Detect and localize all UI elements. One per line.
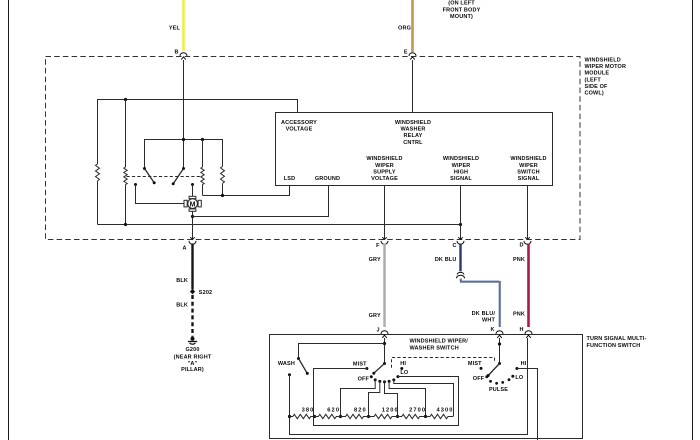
svg-text:COWL): COWL)	[585, 91, 604, 97]
wire d5 tap	[394, 380, 454, 417]
junction on K wire	[498, 342, 501, 345]
connector A	[183, 237, 196, 251]
coil L1	[124, 100, 127, 225]
svg-text:WASH: WASH	[278, 361, 295, 367]
svg-text:PILLAR): PILLAR)	[181, 367, 204, 373]
svg-text:SIDE OF: SIDE OF	[585, 84, 609, 90]
svg-text:(NEAR RIGHT: (NEAR RIGHT	[174, 354, 212, 360]
relay switch SW1	[143, 167, 156, 184]
connector C	[453, 237, 464, 249]
svg-text:WHT: WHT	[482, 318, 495, 324]
inline connector (DK BLU break)	[457, 272, 465, 278]
svg-text:(LEFT: (LEFT	[585, 77, 602, 83]
wire BLK A to S202	[176, 244, 192, 290]
svg-text:D: D	[520, 243, 524, 249]
svg-text:SIGNAL: SIGNAL	[518, 176, 540, 182]
wire LSD net	[203, 186, 290, 196]
wire B to relay switch SW2	[183, 60, 185, 169]
resistor 1200	[369, 408, 399, 419]
wiper switch rotor (left bank)	[372, 362, 386, 375]
svg-text:LSD: LSD	[284, 176, 295, 182]
module label (LEFT SIDE OF COWL)	[585, 58, 627, 97]
svg-text:E: E	[404, 50, 408, 56]
connector J	[376, 328, 388, 338]
svg-text:WASHER SWITCH: WASHER SWITCH	[410, 345, 459, 351]
wire DK BLU from C	[435, 244, 461, 272]
svg-text:GROUND: GROUND	[315, 176, 340, 182]
wire d2 tap	[369, 381, 380, 416]
contact HI (right bank)	[515, 361, 526, 370]
resistor 2700	[398, 408, 427, 419]
svg-text:WINDSHIELD: WINDSHIELD	[395, 120, 431, 126]
connector B	[175, 50, 187, 60]
contact OFF (right bank)	[473, 375, 489, 382]
svg-text:SWITCH: SWITCH	[517, 169, 540, 175]
svg-text:MOUNT): MOUNT)	[450, 14, 473, 20]
pin label ACCESSORY VOLTAGE	[281, 120, 317, 133]
svg-text:HI: HI	[400, 361, 406, 367]
svg-text:DK BLU/: DK BLU/	[472, 311, 496, 317]
svg-text:DK BLU: DK BLU	[435, 257, 457, 263]
wire relay bus (second horizontal)	[145, 140, 223, 169]
wire J into wiper switch	[384, 338, 386, 364]
wire d1 tap	[341, 380, 376, 417]
svg-text:PNK: PNK	[513, 257, 525, 263]
svg-text:A: A	[183, 245, 187, 251]
wire E to washer relay ctrl pin	[412, 60, 414, 113]
svg-text:820: 820	[354, 408, 367, 414]
pin label WINDSHIELD WASHER RELAY CNTRL	[395, 120, 431, 146]
svg-text:SIGNAL: SIGNAL	[450, 176, 472, 182]
svg-text:BLK: BLK	[176, 303, 188, 309]
wire K into pulse switch	[499, 338, 501, 364]
svg-text:CNTRL: CNTRL	[403, 140, 423, 146]
svg-text:RELAY: RELAY	[404, 133, 423, 139]
svg-text:G200: G200	[185, 347, 199, 353]
page frame left border	[8, 0, 10, 440]
contact LO (left bank)	[396, 370, 409, 378]
wire F pin	[384, 186, 386, 240]
wire ORG (to connector E)	[398, 0, 412, 52]
contact HI (left bank)	[400, 361, 406, 370]
svg-text:380: 380	[302, 408, 315, 414]
svg-text:VOLTAGE: VOLTAGE	[286, 127, 313, 133]
mechanical linkage dashed	[127, 176, 202, 178]
connector F	[376, 237, 388, 249]
connector H	[520, 327, 532, 338]
wire MIST-LO bypass	[314, 369, 459, 426]
wire C pin	[460, 186, 462, 240]
svg-text:(ON LEFT: (ON LEFT	[448, 1, 475, 7]
wire GRY F to J	[369, 244, 385, 328]
wire D pin	[527, 186, 529, 240]
wire wash contact to resistor chain and H	[290, 338, 528, 435]
svg-text:MIST: MIST	[353, 362, 367, 368]
svg-text:LO: LO	[400, 370, 409, 376]
svg-text:1200: 1200	[382, 408, 399, 414]
wire d4 tap	[389, 381, 425, 416]
svg-text:HI: HI	[521, 361, 527, 367]
relay switch SW2	[172, 167, 185, 185]
resistor 620	[315, 408, 341, 419]
module electronics box U1	[276, 113, 553, 186]
motor M1	[184, 196, 201, 211]
resistor 380	[290, 408, 315, 419]
svg-text:HIGH: HIGH	[454, 169, 468, 175]
label TURN SIGNAL MULTI-FUNCTION SWITCH	[587, 336, 647, 349]
svg-text:SUPPLY: SUPPLY	[373, 169, 396, 175]
svg-text:PNK: PNK	[513, 312, 525, 318]
svg-text:GRY: GRY	[369, 313, 381, 319]
svg-text:WIPER MOTOR: WIPER MOTOR	[585, 64, 627, 70]
wire DK BLU/WHT to K	[460, 279, 500, 327]
pulse switch rotor (right bank)	[487, 362, 501, 377]
wire wash feed	[299, 344, 385, 359]
page frame right border	[692, 0, 694, 440]
svg-text:4300: 4300	[436, 408, 453, 414]
delay contacts d1-d5	[374, 378, 396, 383]
pin label WINDSHIELD WIPER SWITCH SIGNAL	[510, 156, 546, 182]
wire d3 tap	[385, 382, 398, 417]
wire HI (right bank) off-page	[517, 369, 538, 440]
turn signal multi-function switch box	[270, 335, 583, 439]
svg-text:VOLTAGE: VOLTAGE	[371, 176, 398, 182]
svg-text:ORG: ORG	[398, 26, 411, 32]
svg-text:TURN SIGNAL MULTI-: TURN SIGNAL MULTI-	[587, 336, 647, 342]
svg-text:GRY: GRY	[369, 257, 381, 263]
svg-text:620: 620	[327, 408, 340, 414]
junction coil L1 / feed	[124, 98, 127, 101]
splice S202	[190, 289, 212, 296]
svg-text:S202: S202	[199, 290, 212, 296]
wire park net (long horizontal)	[98, 224, 461, 226]
label WINDSHIELD WIPER/WASHER SWITCH	[410, 339, 469, 352]
connector K	[491, 327, 503, 338]
svg-text:WIPER: WIPER	[375, 163, 394, 169]
svg-text:H: H	[520, 327, 524, 333]
note (ON LEFT FRONT BODY MOUNT)	[443, 1, 481, 21]
contact SW1	[134, 183, 184, 204]
svg-text:WIPER: WIPER	[452, 163, 471, 169]
svg-text:FRONT BODY: FRONT BODY	[443, 8, 481, 14]
contact MIST (left bank)	[353, 362, 368, 370]
svg-text:WINDSHIELD: WINDSHIELD	[443, 156, 479, 162]
linkage dashed (wiper to pulse switch)	[392, 358, 495, 368]
resistor 4300	[426, 408, 454, 419]
svg-text:WINDSHIELD: WINDSHIELD	[585, 58, 621, 64]
svg-text:J: J	[376, 328, 379, 334]
wire BLK S202 to G200 (dashed)	[176, 295, 192, 337]
wire PNK D to H	[513, 244, 529, 328]
svg-text:BLK: BLK	[176, 278, 188, 284]
resistor 820	[341, 408, 369, 419]
contact OFF (left bank)	[358, 375, 373, 382]
junction R2 / LSD net	[221, 194, 224, 197]
connector E	[404, 50, 416, 60]
windshield wiper motor module dashed box	[46, 57, 581, 240]
svg-text:K: K	[491, 327, 495, 333]
contact MIST (right bank)	[468, 361, 483, 370]
svg-text:YEL: YEL	[169, 26, 181, 32]
contact LO (right bank)	[511, 375, 524, 381]
junction coil L2 / relay bus	[201, 138, 204, 141]
svg-text:WINDSHIELD: WINDSHIELD	[366, 156, 402, 162]
svg-text:WIPER: WIPER	[519, 163, 538, 169]
connector D	[520, 237, 531, 248]
svg-text:MIST: MIST	[468, 361, 482, 367]
pin label WINDSHIELD WIPER SUPPLY VOLTAGE	[366, 156, 402, 182]
svg-text:WINDSHIELD: WINDSHIELD	[510, 156, 546, 162]
svg-text:LO: LO	[515, 375, 524, 381]
wire YEL (to connector B)	[169, 0, 184, 51]
svg-text:OFF: OFF	[358, 376, 370, 382]
svg-text:ACCESSORY: ACCESSORY	[281, 120, 317, 126]
junction B wire / relay bus	[182, 138, 185, 141]
resistor R1	[96, 164, 100, 225]
svg-text:2700: 2700	[409, 408, 426, 414]
pin label WINDSHIELD WIPER HIGH SIGNAL	[443, 156, 479, 182]
svg-text:C: C	[453, 243, 457, 249]
switch WASH	[278, 357, 309, 376]
wire accessory-voltage feed (top horizontal)	[98, 100, 298, 165]
wire motor bottom to connector A	[192, 211, 194, 239]
svg-text:B: B	[175, 50, 179, 56]
resistor chain junction dots	[288, 415, 427, 418]
junction park net / C pin	[459, 223, 462, 226]
coil L2	[201, 140, 204, 196]
svg-text:WINDSHIELD WIPER/: WINDSHIELD WIPER/	[410, 339, 469, 345]
svg-text:M: M	[190, 201, 196, 208]
resistor R2	[221, 164, 225, 196]
ground G200	[174, 337, 212, 373]
pulse position contacts	[489, 378, 510, 384]
svg-text:MODULE: MODULE	[585, 71, 610, 77]
junction coil L1 / park net	[124, 223, 127, 226]
svg-text:PULSE: PULSE	[489, 387, 508, 393]
wire ground net to GROUND pin	[193, 186, 329, 217]
svg-text:WASHER: WASHER	[400, 127, 425, 133]
junction J / wash feed	[383, 342, 386, 345]
contact SW2	[191, 183, 194, 196]
svg-text:FUNCTION SWITCH: FUNCTION SWITCH	[587, 343, 641, 349]
junction motor/ground net	[191, 215, 194, 218]
svg-text:OFF: OFF	[473, 376, 485, 382]
